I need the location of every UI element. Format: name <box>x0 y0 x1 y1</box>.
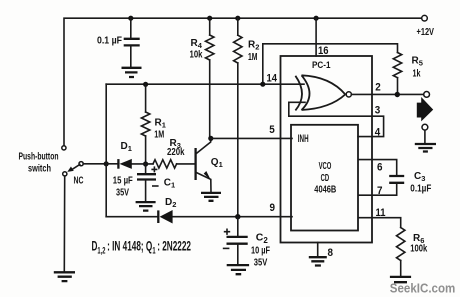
svg-text:5: 5 <box>269 124 275 136</box>
wire bottom row (pin9) <box>106 216 292 218</box>
svg-text:35V: 35V <box>254 257 268 269</box>
wire R2 to C2/pin9 node <box>237 63 239 217</box>
ground under C2 <box>227 265 249 274</box>
wire left loop vertical <box>105 84 107 217</box>
node Q1 collector / R4 / pin5 <box>208 136 213 141</box>
ground under C1 <box>136 202 156 211</box>
capacitor C3 0.1uF <box>389 171 431 195</box>
wire jack to ground <box>424 130 426 144</box>
svg-text:PC-1: PC-1 <box>312 60 331 70</box>
svg-text:7: 7 <box>377 185 383 197</box>
resistor R2 1M <box>234 18 260 63</box>
wire switch lower contact to ground <box>63 176 65 272</box>
resistor R6 100k <box>397 228 428 277</box>
wire pin2 output <box>351 93 423 95</box>
resistor R4 10k <box>190 18 214 60</box>
wire pin5 (INH) <box>211 137 292 139</box>
resistor R5 1k <box>393 53 423 95</box>
svg-text:1M: 1M <box>154 130 164 141</box>
resistor R1 1M <box>141 84 166 164</box>
ground under Q1 emitter <box>201 193 221 201</box>
output terminal upper <box>424 92 430 98</box>
wire top node row (pin14 wire) <box>106 83 304 85</box>
output terminal lower <box>422 124 428 130</box>
svg-text:1M: 1M <box>248 52 258 63</box>
svg-text:switch: switch <box>28 164 51 175</box>
ground under bypass cap <box>122 68 142 77</box>
ground under output jack <box>415 144 436 152</box>
diode D2 <box>158 197 176 224</box>
svg-text:1k: 1k <box>413 69 421 80</box>
svg-text:3: 3 <box>375 104 381 116</box>
ground under pin8 <box>309 257 327 265</box>
wire top +12V rail <box>64 18 422 146</box>
wire switch arm to left loop <box>83 163 106 165</box>
svg-text:0.1µF: 0.1µF <box>410 184 431 195</box>
svg-text:8: 8 <box>328 247 334 259</box>
svg-text:220k: 220k <box>167 147 185 158</box>
node output junction <box>395 92 400 97</box>
node pin14/R5 branch <box>260 82 265 87</box>
svg-text:14: 14 <box>267 72 278 84</box>
svg-text:Push-button: Push-button <box>19 152 59 163</box>
svg-text:35V: 35V <box>116 188 129 199</box>
svg-text:VCO: VCO <box>319 161 332 172</box>
svg-text:4046B: 4046B <box>314 184 336 196</box>
wire R4 to Q1 collector / pin5 node <box>209 60 211 138</box>
svg-text:SeekIC.com: SeekIC.com <box>390 281 456 296</box>
push-button switch <box>62 146 84 187</box>
node switch/loop junction <box>104 161 109 166</box>
transistor Q1 2N2222 <box>196 139 223 193</box>
wire pin11 to R6 <box>359 218 401 228</box>
svg-text:NC: NC <box>74 176 84 187</box>
wire pin16 from rail <box>315 18 317 56</box>
svg-text:CD: CD <box>321 172 330 184</box>
capacitor C1 15uF electrolytic <box>137 164 175 202</box>
svg-text:INH: INH <box>298 133 309 145</box>
output arrow symbol <box>417 97 433 121</box>
node R1 bottom / D1 / R3 / C1 <box>143 161 148 166</box>
capacitor C2 10uF electrolytic <box>224 217 271 269</box>
svg-text:+12V: +12V <box>417 26 435 38</box>
node rail/pin16 junction <box>314 16 319 21</box>
node C2 / R2 / pin9 <box>235 214 240 219</box>
node rail/R4 junction <box>207 16 212 21</box>
svg-text:10k: 10k <box>190 50 203 61</box>
resistor R3 220k <box>153 138 185 168</box>
wire R5 branch from pin14 node up and across <box>263 44 398 84</box>
wire pin6 to C3 <box>359 160 397 175</box>
wire middle row <box>106 163 195 165</box>
wire pin7 to C3 <box>359 184 397 195</box>
svg-text:2: 2 <box>375 82 381 94</box>
wire pin8 to ground <box>317 243 319 257</box>
VCO inner box <box>291 125 358 231</box>
svg-text:6: 6 <box>377 162 383 174</box>
ground under switch <box>54 272 75 281</box>
svg-text:11: 11 <box>376 207 386 219</box>
capacitor 0.1uF bypass <box>97 18 140 66</box>
ground under R6 <box>390 277 411 282</box>
diode D1 <box>118 141 132 169</box>
IC outer box PC-1 (CD4046 phase comparator section) <box>281 56 373 243</box>
op-amp U1 XNOR gate of PC-1 <box>295 75 351 110</box>
svg-text:15 µF: 15 µF <box>113 176 133 187</box>
svg-text:4: 4 <box>375 126 381 138</box>
node rail/bypass-cap junction <box>128 16 133 21</box>
svg-text:0.1 µF: 0.1 µF <box>97 36 122 47</box>
node R1 top <box>143 82 148 87</box>
wire XNOR lower input feedback to pin3 <box>289 102 384 136</box>
svg-text:9: 9 <box>270 202 276 214</box>
svg-text:10 µF: 10 µF <box>251 245 270 257</box>
+12V terminal <box>422 15 428 21</box>
svg-text:100k: 100k <box>410 244 427 255</box>
node rail/R2 junction <box>235 16 240 21</box>
